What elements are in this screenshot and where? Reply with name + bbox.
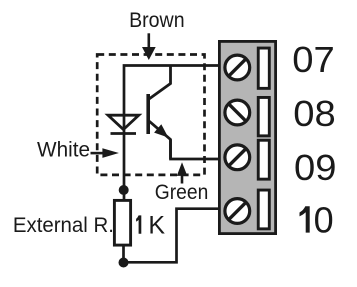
phototransistor Q1 collector: [149, 65, 171, 99]
resistor R1 (External R. 1K): [114, 200, 130, 245]
svg-text:0: 0: [314, 200, 334, 241]
LED diode D1 triangle: [108, 115, 139, 129]
terminal 10 screw: [225, 199, 250, 224]
terminal 10 clamp slot: [258, 190, 269, 229]
svg-text:08: 08: [293, 93, 336, 134]
svg-text:Brown: Brown: [129, 9, 185, 32]
arrow: Brown pointing down: [148, 33, 151, 48]
phototransistor Q1 emitter: [149, 121, 171, 159]
svg-text:External R.: External R.: [13, 214, 114, 237]
junction dot (resistor bottom): [119, 258, 129, 268]
terminal 08 screw: [225, 100, 250, 125]
optocoupler dashed box: [97, 55, 204, 175]
arrow: Green pointing up: [181, 175, 184, 184]
junction dot (LED cathode / resistor top): [119, 185, 129, 195]
svg-text:Green: Green: [155, 181, 209, 204]
wire: bottom run to terminal 10: [124, 209, 221, 263]
svg-text:09: 09: [294, 147, 337, 188]
label: 1K value: [136, 215, 141, 233]
svg-text:07: 07: [292, 39, 335, 80]
wire: resistor bottom lead: [122, 246, 125, 263]
phototransistor Q1 base bar: [146, 94, 150, 134]
wire: collector top wire to terminal 07: [124, 66, 220, 200]
wire: emitter to terminal 09: [171, 140, 221, 159]
terminal 07 clamp slot: [258, 48, 269, 88]
svg-text:White: White: [37, 138, 90, 161]
phototransistor Q1 emitter arrowhead: [154, 124, 168, 137]
terminal 09 screw: [225, 145, 250, 170]
label: terminal number 10 digit 1: [300, 206, 310, 232]
terminal block body: [219, 41, 275, 233]
arrow: White pointing right: [91, 152, 105, 155]
terminal 08 clamp slot: [258, 97, 269, 135]
terminal 07 screw: [225, 55, 250, 80]
svg-text:K: K: [148, 212, 165, 240]
terminal 09 clamp slot: [258, 140, 269, 179]
LED diode D1 cathode bar: [111, 132, 137, 135]
